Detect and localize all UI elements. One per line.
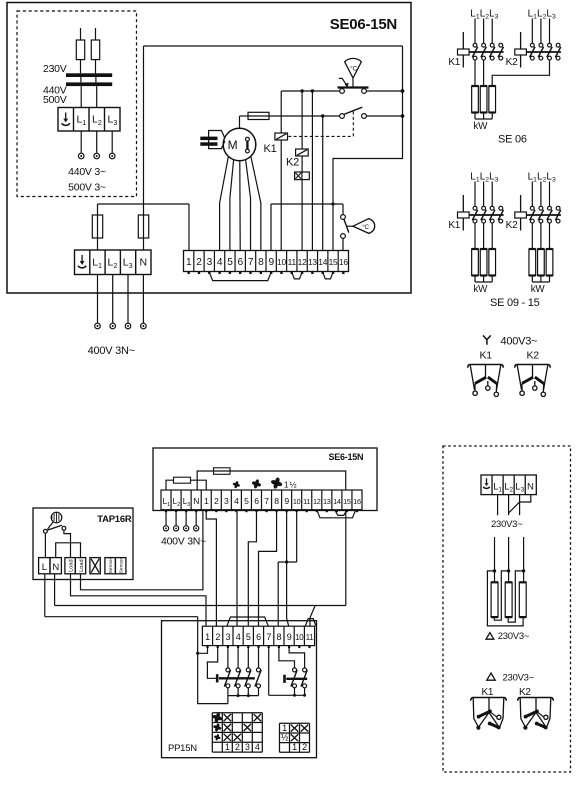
svg-text:K2: K2 [527,349,540,361]
svg-text:9: 9 [284,496,289,506]
svg-text:K1: K1 [480,349,493,361]
svg-text:6: 6 [254,496,259,506]
svg-text:M: M [228,138,238,152]
svg-text:500V: 500V [43,94,67,106]
svg-text:kW: kW [473,121,488,132]
svg-text:400V3~: 400V3~ [501,336,538,348]
svg-text:2: 2 [215,632,220,642]
svg-text:9: 9 [268,257,274,268]
svg-text:3: 3 [245,742,250,752]
svg-text:1: 1 [282,723,287,733]
svg-text:16: 16 [353,497,361,506]
svg-text:°C: °C [350,65,357,73]
svg-text:4: 4 [255,742,260,752]
svg-text:K1: K1 [264,143,277,155]
svg-text:230V3~: 230V3~ [491,519,523,530]
svg-text:14: 14 [318,257,327,267]
svg-text:N: N [140,257,147,269]
svg-text:16: 16 [339,257,348,267]
svg-text:Sensor: Sensor [108,557,114,573]
svg-text:N: N [527,482,534,493]
svg-text:TAP16R: TAP16R [97,514,132,525]
svg-text:1: 1 [284,480,289,490]
svg-text:4: 4 [217,257,223,268]
svg-text:11: 11 [288,257,297,267]
svg-text:13: 13 [323,497,331,506]
svg-text:Sensor: Sensor [119,557,125,573]
svg-text:4: 4 [234,496,239,506]
svg-text:K1: K1 [482,687,494,698]
svg-text:8: 8 [274,496,279,506]
svg-text:6: 6 [238,257,244,268]
svg-text:5: 5 [246,632,251,642]
svg-text:Load: Load [79,559,85,571]
svg-text:2: 2 [302,742,307,752]
svg-text:SE6-15N: SE6-15N [329,452,364,462]
svg-text:L: L [42,562,47,573]
svg-text:kW: kW [473,284,488,295]
svg-text:400V 3N~: 400V 3N~ [88,345,135,357]
svg-text:10: 10 [293,497,301,506]
svg-text:SE 09 - 15: SE 09 - 15 [490,297,540,309]
svg-text:K2: K2 [519,687,531,698]
svg-text:SE06-15N: SE06-15N [330,16,397,33]
svg-text:N: N [52,562,59,573]
svg-text:13: 13 [308,257,317,267]
svg-text:3: 3 [224,496,229,506]
svg-text:1: 1 [204,496,209,506]
svg-text:12: 12 [313,497,321,506]
svg-text:230V3~: 230V3~ [503,672,535,683]
svg-text:9: 9 [287,632,292,642]
svg-text:7: 7 [266,632,271,642]
svg-text:Load: Load [69,559,75,571]
svg-text:14: 14 [333,497,341,506]
svg-text:15: 15 [329,257,338,267]
svg-text:1: 1 [186,257,192,268]
svg-text:6: 6 [256,632,261,642]
svg-text:500V 3~: 500V 3~ [68,181,106,193]
svg-text:SE 06: SE 06 [498,134,527,146]
svg-text:K2: K2 [506,57,518,68]
svg-text:8: 8 [277,632,282,642]
svg-text:½: ½ [289,480,296,490]
svg-text:kW: kW [531,284,546,295]
svg-text:230V3~: 230V3~ [498,631,530,642]
svg-text:1: 1 [205,632,210,642]
svg-text:2: 2 [214,496,219,506]
svg-text:440V 3~: 440V 3~ [68,166,106,178]
svg-text:7: 7 [248,257,254,268]
svg-text:8: 8 [258,257,264,268]
svg-text:400V 3N~: 400V 3N~ [161,536,206,548]
svg-text:3: 3 [207,257,213,268]
svg-text:K1: K1 [448,57,460,68]
svg-text:5: 5 [227,257,233,268]
svg-text:2: 2 [235,742,240,752]
svg-text:12: 12 [298,257,307,267]
svg-text:1: 1 [292,742,297,752]
svg-text:PP15N: PP15N [168,743,197,754]
svg-text:N: N [193,496,199,506]
svg-text:½: ½ [281,733,289,743]
svg-text:K2: K2 [506,220,518,231]
svg-text:11: 11 [303,497,310,506]
svg-text:10: 10 [277,257,286,267]
svg-text:K2: K2 [286,157,299,169]
svg-text:4: 4 [236,632,241,642]
svg-text:10: 10 [295,633,304,642]
svg-text:K1: K1 [448,220,460,231]
svg-text:7: 7 [264,496,269,506]
svg-text:15: 15 [343,497,351,506]
svg-text:2: 2 [196,257,202,268]
svg-text:5: 5 [244,496,249,506]
svg-text:1: 1 [225,742,230,752]
svg-text:°C: °C [362,224,369,231]
svg-text:230V: 230V [43,63,67,75]
svg-text:3: 3 [226,632,231,642]
svg-text:11: 11 [306,633,314,642]
